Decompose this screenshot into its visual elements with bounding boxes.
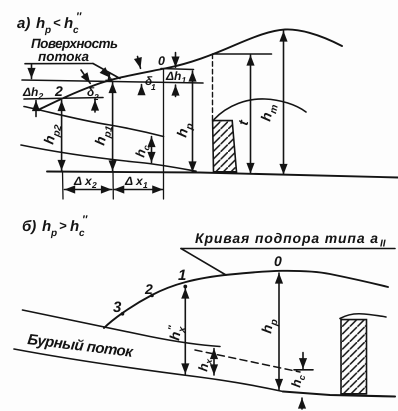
dimension h_x: [213, 349, 215, 376]
svg-text:<: <: [53, 15, 61, 30]
title b: [22, 214, 88, 239]
label h_p b (rotated): [258, 317, 280, 335]
dam a (hatched weir): [213, 121, 237, 172]
wire: level line A (section 1 level): [22, 80, 203, 83]
arrow dh2 lower: [35, 101, 37, 117]
level cap line h_c: [294, 369, 313, 371]
svg-text:2: 2: [54, 83, 63, 99]
dimension h_m: [283, 31, 285, 175]
svg-text:>: >: [59, 218, 67, 233]
dimension h_c b: upper arrow: [302, 353, 304, 369]
wire: rapid-flow surface line b: [23, 310, 221, 347]
dimension dx2: [65, 189, 112, 191]
svg-text:Δh: Δh: [22, 85, 38, 99]
svg-text:2: 2: [91, 180, 97, 190]
svg-text:c: c: [79, 228, 85, 239]
svg-text:2: 2: [144, 281, 153, 297]
svg-text:1: 1: [143, 180, 148, 190]
label dh1: [165, 69, 187, 85]
label h_x (rotated): [195, 356, 214, 373]
svg-text:c: c: [296, 374, 307, 381]
svg-text:h: h: [42, 218, 51, 235]
svg-text:h: h: [70, 218, 79, 235]
node 2: [150, 294, 154, 298]
arrow dh1 lower: [175, 85, 177, 97]
arrow delta2 lower: [94, 100, 96, 112]
wire: level line at point 0: [161, 69, 194, 70]
curve: backwater curve b (3-2-1-0): [104, 271, 388, 328]
svg-text:1: 1: [105, 70, 112, 84]
extension line section 0: [163, 69, 165, 199]
arrow delta2 upper (oblique to curve): [81, 70, 90, 83]
svg-text:1: 1: [182, 75, 187, 85]
extension tick x1: [112, 171, 114, 199]
label underline: [181, 248, 395, 250]
dimension h_p2: [61, 101, 63, 171]
svg-text:h: h: [64, 15, 73, 32]
dimension h_x'': [184, 288, 186, 374]
label "Поверхность потока": [31, 36, 118, 64]
svg-text:3: 3: [113, 299, 122, 316]
svg-text:h: h: [36, 15, 45, 32]
svg-text:p: p: [44, 25, 51, 36]
extension tick x2: [62, 171, 65, 199]
svg-text:2: 2: [93, 92, 99, 102]
svg-text:0: 0: [274, 253, 282, 269]
wire: channel bed line b: [14, 349, 283, 392]
svg-text:p: p: [50, 228, 57, 239]
dimension h_c b: lower arrow: [301, 398, 303, 409]
label h_p1 (rotated): [91, 123, 115, 148]
arrow dh2 upper: [31, 65, 33, 79]
svg-text:c: c: [73, 25, 79, 36]
dimension t: [250, 55, 252, 174]
wire: ground line b: [283, 392, 395, 397]
node 3: [121, 312, 125, 316]
dimension h_p b: [278, 273, 280, 390]
dimension dx1: [114, 189, 163, 191]
svg-text:0: 0: [158, 54, 165, 68]
label h_m (rotated): [257, 102, 281, 124]
arrow delta1 lower: [141, 85, 143, 92]
svg-text:t: t: [235, 117, 252, 126]
svg-text:Бурный поток: Бурный поток: [27, 331, 136, 361]
dashed submerged jet line: [195, 350, 300, 372]
svg-text:Кривая подпора типа а: Кривая подпора типа а: [195, 230, 378, 246]
svg-text:а): а): [17, 15, 30, 32]
wire: level line B (section 2 level): [24, 98, 103, 100]
label delta2: [87, 85, 99, 102]
label h_x'' (rotated): [165, 324, 188, 342]
svg-text:c: c: [141, 144, 152, 151]
svg-text:Δ x: Δ x: [124, 174, 144, 188]
curve: overflow arc over dam b: [340, 314, 386, 319]
svg-text:Δh: Δh: [165, 69, 181, 83]
arrow dh1 upper: [175, 53, 177, 68]
label delta1: [145, 74, 156, 92]
node 1: [109, 78, 112, 81]
wire: channel bed line a: [21, 145, 196, 171]
wire: rapid-flow surface line a: [24, 107, 164, 137]
curve: tailwater arc over dam a: [214, 99, 306, 120]
svg-text:p2: p2: [51, 124, 65, 139]
title a: [17, 11, 82, 36]
label h_c b (rotated): [288, 373, 307, 389]
label dh2: [22, 85, 44, 101]
label dx2: [73, 174, 97, 190]
svg-text:p1: p1: [102, 125, 116, 140]
label dx1: [124, 174, 148, 190]
svg-text:m: m: [268, 104, 281, 115]
svg-text:1: 1: [151, 82, 156, 92]
arrow to point 1: [103, 71, 110, 78]
dimension h_c: [151, 137, 153, 163]
label underline: [25, 63, 93, 65]
wire: apron / ground line a: [47, 172, 398, 178]
leader to surface: [93, 64, 120, 79]
svg-text:″: ″: [82, 214, 88, 226]
svg-text:1: 1: [178, 267, 186, 284]
svg-text:″: ″: [167, 324, 179, 332]
svg-text:2: 2: [38, 91, 44, 101]
dimension h_p1: [112, 83, 114, 172]
svg-text:б): б): [22, 218, 36, 235]
node 1: [183, 285, 187, 289]
dam b (hatched weir): [341, 320, 367, 394]
label h_p (rotated): [173, 120, 196, 139]
curve: water surface a (points 2-1-0 and crest): [40, 29, 342, 109]
svg-text:Δ x: Δ x: [73, 174, 93, 188]
wire: upper pool level line: [214, 53, 272, 55]
dashed crest transfer line: [212, 54, 214, 120]
svg-text:″: ″: [76, 11, 82, 23]
arrow delta1 upper: [138, 57, 141, 69]
label h_c (rotated): [132, 143, 151, 160]
svg-text:потока: потока: [38, 49, 89, 64]
label "Кривая подпора типа a_II": [195, 230, 386, 250]
label h_p2 (rotated): [40, 122, 64, 147]
dimension h_p: [192, 71, 194, 172]
leader to curve b: [181, 249, 226, 276]
